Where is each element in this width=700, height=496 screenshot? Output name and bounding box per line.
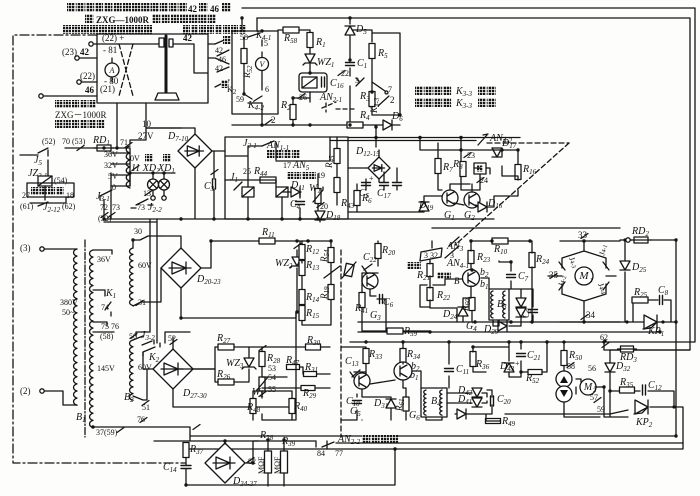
resistor R58 xyxy=(283,27,299,33)
wire 27V top loop xyxy=(130,128,181,186)
wires row3 right xyxy=(341,341,547,421)
lamp XD1 xyxy=(159,179,170,190)
tap 30 xyxy=(133,236,160,248)
zener WZ1 xyxy=(305,54,315,63)
svg-text:(2): (2) xyxy=(20,386,31,396)
transistor b1b2 второй xyxy=(394,362,412,380)
stand pillar xyxy=(165,36,168,92)
svg-text:A: A xyxy=(109,66,115,75)
wires mid region xyxy=(337,127,518,212)
wire box to top bus xyxy=(241,18,243,31)
svg-text:27V: 27V xyxy=(138,131,154,141)
capacitor C10 xyxy=(353,401,362,404)
svg-text:0: 0 xyxy=(112,183,116,192)
label fan xyxy=(223,36,230,44)
svg-text:60V: 60V xyxy=(138,363,152,372)
tap 36V xyxy=(93,250,112,254)
wire terminal 22+ xyxy=(93,43,163,45)
resistor R36 xyxy=(470,352,476,367)
diode D28 xyxy=(516,308,526,317)
svg-text:32V: 32V xyxy=(104,161,118,170)
diode D31 xyxy=(386,399,396,408)
wire bus y140 xyxy=(330,140,476,142)
polarity switch arrows xyxy=(215,38,229,87)
wires bottom xyxy=(186,441,395,485)
wire R2 xyxy=(293,98,310,125)
wires bank xyxy=(302,241,331,325)
header line 3 xyxy=(63,25,246,34)
wire box right to switch xyxy=(208,44,215,58)
thyristor KP1 xyxy=(644,315,657,329)
resistor bank col2 xyxy=(328,248,334,263)
wires oscillator row xyxy=(420,241,533,326)
switch arrow AN xyxy=(356,78,364,86)
svg-text:MΩF: MΩF xyxy=(257,456,266,474)
wires M2 region xyxy=(564,342,690,417)
wire stand to 42 xyxy=(172,44,208,73)
wire D5 column xyxy=(349,18,351,125)
svg-text:M: M xyxy=(583,382,593,393)
fuse RD1 xyxy=(97,145,111,151)
wire RD1 row xyxy=(65,103,146,148)
svg-text:56: 56 xyxy=(588,364,596,373)
capacitor C14 xyxy=(181,466,191,469)
resistor R29 xyxy=(301,386,315,391)
svg-text:M: M xyxy=(578,270,589,282)
resistor R52 xyxy=(241,49,247,64)
svg-text:55: 55 xyxy=(268,385,276,394)
diode D18 xyxy=(315,211,325,220)
resistor R46 xyxy=(334,178,340,193)
diode D43 xyxy=(504,363,514,372)
wire WZ1 loop xyxy=(301,42,310,62)
resistor R16 xyxy=(515,165,521,180)
note K3-3 behaviour xyxy=(415,86,496,98)
wire 72/73 down xyxy=(104,173,130,219)
resistor R1 xyxy=(307,33,313,48)
resistor R34 xyxy=(400,349,406,364)
svg-text:17: 17 xyxy=(283,161,291,170)
svg-text:25: 25 xyxy=(243,167,251,176)
resistor R59 xyxy=(387,328,403,334)
wires MF xyxy=(268,441,316,486)
svg-text:42: 42 xyxy=(215,64,223,73)
tap 37(59) xyxy=(93,427,190,434)
terminal (22)+ xyxy=(89,42,93,46)
resistor R27 xyxy=(218,344,234,350)
diode D19 xyxy=(419,202,429,211)
capacitor C6 xyxy=(380,295,383,304)
stand base xyxy=(155,93,179,100)
capacitor C12 xyxy=(643,385,646,395)
transistor G7 xyxy=(354,373,370,389)
capacitor C11 xyxy=(445,369,454,372)
wire K3-3 contact xyxy=(372,82,389,106)
wire terminal 23-42 xyxy=(79,57,97,59)
wires bridge D20-23 xyxy=(133,236,296,318)
resistor R61 xyxy=(403,397,409,411)
pot W2 xyxy=(259,377,265,391)
svg-text:ZXG—1000R: ZXG—1000R xyxy=(96,15,150,25)
lamp terminals xyxy=(151,196,155,200)
capacitor C2 xyxy=(393,183,402,186)
svg-text:6: 6 xyxy=(265,85,269,94)
svg-text:30: 30 xyxy=(134,227,142,236)
diode D6 xyxy=(383,120,392,130)
resistor R33 xyxy=(363,349,369,364)
wire top to R58 xyxy=(278,30,310,32)
resistor MF2 xyxy=(281,451,288,473)
B2 winding lower 60V xyxy=(130,340,133,400)
B2 transformer winding upper 60V xyxy=(130,248,133,306)
wires left column xyxy=(362,241,430,331)
svg-text:36V: 36V xyxy=(97,255,111,264)
capacitor C16 xyxy=(299,73,327,92)
fuse RD2 xyxy=(620,239,676,241)
svg-text:70 (53): 70 (53) xyxy=(62,137,86,146)
transistor G3 xyxy=(362,273,378,289)
thermistor R18 xyxy=(344,263,354,276)
wire ticks xyxy=(77,71,609,463)
resistor R60 xyxy=(469,298,475,311)
resistor R41 xyxy=(359,293,365,308)
wire terminal 22b xyxy=(81,81,97,83)
resistor R37 xyxy=(183,443,189,458)
wire AN2-2 out xyxy=(336,442,683,444)
motor M1 xyxy=(575,267,593,285)
diode D11 xyxy=(291,187,300,197)
vertical feed wires xyxy=(104,219,157,340)
wire dashed vertical mid xyxy=(340,250,342,437)
label xiang-up xyxy=(437,272,451,279)
svg-text:84: 84 xyxy=(317,449,325,458)
svg-text:- 81: - 81 xyxy=(103,45,117,55)
stand clamp right xyxy=(169,39,173,47)
svg-text:59: 59 xyxy=(236,95,244,104)
switch J2-2 xyxy=(131,199,153,208)
wire bus y332 xyxy=(358,331,660,333)
transformer B1 secondary xyxy=(90,250,93,428)
capacitor C20 xyxy=(491,396,494,406)
wire taps xyxy=(111,153,130,186)
wire R11 to bank xyxy=(275,241,331,248)
tacho thyristors xyxy=(556,371,572,387)
resistor R6 xyxy=(354,191,360,206)
svg-text:58: 58 xyxy=(240,33,248,42)
voltmeter V xyxy=(256,58,269,71)
wire bus y322 xyxy=(358,321,676,323)
transformer B3 xyxy=(489,289,509,320)
ammeter A xyxy=(111,58,113,82)
wire 33 xyxy=(560,241,620,251)
svg-text:74: 74 xyxy=(101,303,109,312)
wire K3 loop xyxy=(350,33,400,115)
lamp XD2 xyxy=(148,179,159,190)
svg-text:(22) +: (22) + xyxy=(102,33,124,43)
transformer B1 primary xyxy=(74,249,77,405)
box welding source xyxy=(97,34,208,103)
box central control xyxy=(225,137,348,219)
capacitor C9 xyxy=(529,310,538,313)
resistor R22 xyxy=(427,288,433,301)
wire R1 to WZ1 xyxy=(309,48,311,73)
svg-text:+: + xyxy=(515,359,520,368)
resistor R7 xyxy=(435,159,441,174)
diode D24 xyxy=(458,307,468,316)
bridge D34-37 xyxy=(205,443,245,483)
wire bridge connections xyxy=(104,128,494,219)
resistor R50 xyxy=(561,351,567,366)
diode D44 xyxy=(457,409,466,419)
svg-text:3: 3 xyxy=(355,76,359,85)
resistor R10 xyxy=(492,238,508,244)
wire row y125 xyxy=(363,124,400,126)
svg-text:42: 42 xyxy=(183,33,193,43)
resistor R4 xyxy=(347,122,363,128)
wire dashed triangle hypotenuse xyxy=(455,143,569,245)
transformer B4 xyxy=(421,388,447,417)
wire J1 to 26 xyxy=(309,92,311,102)
wire tap column down xyxy=(104,153,111,222)
resistor MF1 xyxy=(265,451,272,473)
wires inside control box xyxy=(225,137,330,222)
fuse RD3 xyxy=(621,346,634,352)
diode D32 xyxy=(605,363,615,372)
connector box 3-32 xyxy=(420,248,442,261)
resistor R31 xyxy=(304,372,317,377)
svg-text:75 76: 75 76 xyxy=(101,322,119,331)
svg-text:(22): (22) xyxy=(80,71,95,81)
relay J1 box xyxy=(302,77,317,88)
svg-text:46: 46 xyxy=(218,55,226,64)
capacitor C4 xyxy=(296,202,305,205)
svg-text:5V: 5V xyxy=(108,172,118,181)
pushbutton AN2-2 stop xyxy=(322,441,334,449)
svg-text:B: B xyxy=(454,276,460,286)
transformer B winding xyxy=(126,146,130,188)
svg-text:3 32: 3 32 xyxy=(424,251,438,260)
label inside power xyxy=(27,183,74,197)
resistor bank col1 xyxy=(299,245,305,260)
resistor R24 xyxy=(529,253,535,268)
capacitor C7 xyxy=(507,275,516,278)
capacitor C5 xyxy=(362,183,371,186)
bridge D7-10 xyxy=(178,134,212,168)
resistor R40 xyxy=(289,399,295,414)
wire inner top bus xyxy=(257,18,690,350)
wire K4-2 xyxy=(244,84,262,103)
capacitor C21 xyxy=(517,354,526,357)
svg-text:ZXG－1000R: ZXG－1000R xyxy=(55,110,107,120)
wire node 2 bottom xyxy=(261,103,263,125)
capacitor C1 xyxy=(346,63,355,66)
pot arrow bank xyxy=(324,266,340,278)
wire 46 line xyxy=(43,95,97,97)
svg-text:37(59): 37(59) xyxy=(96,428,118,437)
resistor R35 xyxy=(620,387,635,393)
svg-text:5: 5 xyxy=(264,39,268,48)
pot W1 xyxy=(315,189,321,204)
transistor G2 xyxy=(464,192,480,208)
relay box a xyxy=(474,163,486,174)
svg-text:(52): (52) xyxy=(42,137,56,146)
box voltmeter K4 xyxy=(232,31,278,114)
resistor R3 xyxy=(369,92,375,107)
wire lamp row xyxy=(130,173,175,196)
resistor R47 xyxy=(287,365,300,370)
svg-text:42: 42 xyxy=(188,4,198,14)
switch J3-1 xyxy=(100,190,112,200)
wire row top y228 xyxy=(432,227,620,229)
svg-text:18: 18 xyxy=(66,191,74,200)
header line 1 xyxy=(67,3,230,14)
wire dashed X xyxy=(119,44,133,96)
wire J5 JZ column xyxy=(20,155,66,203)
svg-text:7: 7 xyxy=(388,85,392,94)
transistor G1 xyxy=(442,190,458,206)
terminal 46 xyxy=(39,94,43,98)
wire bottom row xyxy=(232,124,348,126)
svg-text:53: 53 xyxy=(268,364,276,373)
wire bus y137 xyxy=(348,137,520,139)
capacitor C3 xyxy=(213,179,216,189)
svg-text:MΩF: MΩF xyxy=(273,456,282,474)
wire right vertical x676 xyxy=(190,240,676,436)
wire top outer bus xyxy=(242,8,695,342)
bridge D20-23 xyxy=(161,248,201,288)
svg-text:(23): (23) xyxy=(62,47,77,57)
svg-text:42: 42 xyxy=(215,46,223,55)
svg-text:1: 1 xyxy=(590,278,593,284)
stand clamp left xyxy=(159,38,164,47)
wire V meter stub xyxy=(261,52,263,84)
diode D26 xyxy=(516,298,526,307)
resistor R49 xyxy=(486,419,501,424)
switch J5 xyxy=(30,148,48,166)
terminal (23)42 xyxy=(75,56,79,60)
thyristor KP2 xyxy=(635,400,648,414)
resistor R26 xyxy=(218,379,234,385)
svg-text:46: 46 xyxy=(85,85,95,95)
wire dashed triangle top xyxy=(487,142,569,144)
wire bottom feeder xyxy=(154,434,268,449)
wire R52 branch xyxy=(243,37,245,94)
wires row3 mid xyxy=(249,312,330,420)
svg-text:145V: 145V xyxy=(97,364,115,373)
capacitor C17 xyxy=(380,183,389,186)
resistor R28 xyxy=(259,352,265,367)
diode D17 xyxy=(492,148,502,157)
terminal (22) xyxy=(77,80,81,84)
resistor R11 xyxy=(259,238,275,244)
label xiang-down xyxy=(407,262,421,269)
resistor R48 xyxy=(250,399,256,414)
J4 contacts around M1 xyxy=(548,251,616,312)
diode D25 xyxy=(624,240,626,322)
resistor R2 xyxy=(290,105,296,120)
diode D5 xyxy=(345,26,355,35)
relay box 3 xyxy=(276,187,288,197)
wire inner bus corner stub xyxy=(256,18,258,31)
svg-text:0V: 0V xyxy=(130,154,140,163)
svg-text:+: + xyxy=(369,174,374,183)
label zheng xyxy=(221,80,228,88)
relay box 2 xyxy=(242,187,254,197)
R25 C8 snubber xyxy=(632,300,671,322)
resistor R30 xyxy=(306,344,321,350)
svg-text:2: 2 xyxy=(390,95,395,105)
zener WZ2 xyxy=(292,257,302,266)
svg-text:73: 73 xyxy=(137,203,145,212)
wire 34 xyxy=(560,312,620,322)
svg-text:(3): (3) xyxy=(20,243,31,253)
svg-text:73: 73 xyxy=(112,203,120,212)
wire bottom bus y449 xyxy=(215,443,683,449)
left column R20/C22/R18/R41/G3/C6 xyxy=(375,244,381,259)
resistor R5 xyxy=(369,44,375,59)
svg-text:- 80: - 80 xyxy=(104,76,119,86)
svg-text:77: 77 xyxy=(335,449,343,458)
wires row3 left xyxy=(133,332,296,407)
transistor b1 b2 xyxy=(463,270,480,287)
resistor R8 xyxy=(460,162,466,177)
svg-text:36V: 36V xyxy=(104,150,118,159)
svg-text:27: 27 xyxy=(22,191,30,200)
diode D16 xyxy=(478,202,487,212)
label welding rectifier xyxy=(55,100,107,128)
resistor R45 xyxy=(334,149,340,164)
bridge D27-30 xyxy=(153,349,193,389)
svg-text:42: 42 xyxy=(80,47,90,57)
wire left dash-dot enclosure xyxy=(13,35,185,463)
header line 2 xyxy=(85,14,216,25)
transformer B1 core xyxy=(84,240,86,437)
motor M2 xyxy=(580,379,596,395)
wire K4-1 branch xyxy=(248,33,262,46)
resistor R23 xyxy=(468,251,474,264)
resistor R32 xyxy=(528,370,542,375)
svg-text:(58): (58) xyxy=(100,332,114,341)
wire bottom to 2 xyxy=(232,101,278,114)
svg-text:46: 46 xyxy=(210,4,220,14)
